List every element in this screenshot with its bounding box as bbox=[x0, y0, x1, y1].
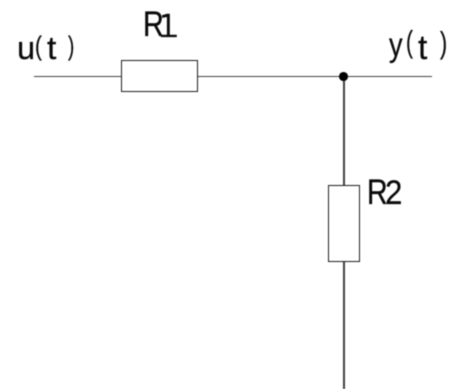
wire: junction node A down to resistor R2 bbox=[343, 76, 345, 185]
label y(t): output voltage bbox=[0, 0, 465, 1]
label u(t): input voltage bbox=[0, 0, 465, 1]
node A: junction dot where R1, R2 and output meet bbox=[339, 72, 348, 81]
wire: resistor R2 bottom lead to bottom edge bbox=[343, 261, 345, 389]
label R1: value/reference of series resistor bbox=[0, 0, 465, 1]
resistor R1 (series element, horizontal body) bbox=[121, 60, 198, 92]
label R2: value/reference of shunt resistor bbox=[0, 0, 465, 1]
resistor R2 (shunt element, vertical body) bbox=[328, 185, 360, 262]
wire: input lead from u(t) terminal to resistor R1 bbox=[34, 76, 123, 78]
wire: resistor R1 to junction node A bbox=[197, 76, 344, 78]
wire: junction node A to output terminal y(t) bbox=[343, 76, 432, 78]
